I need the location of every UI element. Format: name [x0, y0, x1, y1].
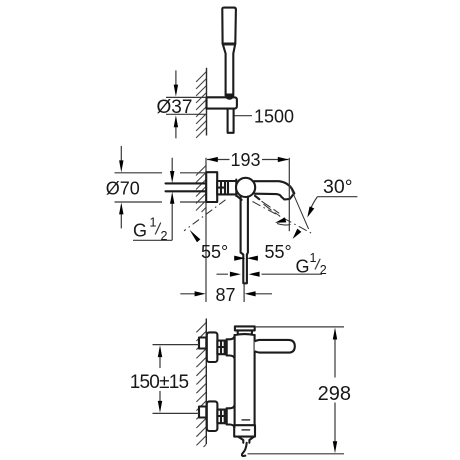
ball lower-left tick — [237, 196, 241, 200]
upper union nut — [217, 341, 224, 355]
hand shower head — [222, 8, 236, 44]
G 1/2 right text — [296, 251, 327, 277]
arrow pair at rod y258 — [234, 256, 245, 261]
hand shower handle — [223, 44, 236, 96]
dimension 193 line+arrows — [207, 159, 289, 161]
lower spacer — [225, 410, 227, 424]
svg-text:1: 1 — [310, 251, 317, 265]
G 1/2 right leader arrows at rod y274 — [217, 273, 323, 275]
supply pipe lines through wall — [166, 183, 207, 191]
dimension Ø70 extension lines — [115, 173, 207, 202]
svg-text:2: 2 — [161, 229, 168, 243]
svg-text:30°: 30° — [323, 176, 353, 198]
phantom lever swing line right 55 — [253, 202, 313, 234]
rod extension line — [243, 284, 245, 303]
dimension 87 — [180, 293, 272, 295]
upper supply stub in wall — [199, 338, 206, 349]
outlet curl — [242, 443, 247, 456]
body internal line above collar — [242, 419, 251, 421]
svg-text:G: G — [133, 221, 147, 241]
hand shower head/handle joint line — [223, 44, 234, 46]
30 degree leader — [311, 197, 358, 209]
spacer ring — [225, 181, 228, 194]
wall hatch (bottom drawing) — [196, 323, 206, 448]
dimension Ø37 stem+arrow bottom — [175, 124, 177, 138]
arc arrow mid (swing direction) — [277, 224, 291, 226]
arrowhead left phantom — [188, 228, 201, 242]
ball joint — [236, 178, 255, 197]
dimension Ø37 stem+arrow top — [175, 70, 177, 88]
wall hatch (top drawing) — [196, 72, 206, 138]
phantom lever swing line left 55 — [184, 200, 226, 231]
bottom collar — [234, 425, 255, 436]
dimension Ø37 extension line top — [166, 96, 207, 98]
dimension 193 right extension line — [288, 158, 290, 231]
wall surface line (bottom drawing) — [205, 319, 207, 445]
faucet body (to ball) — [228, 180, 236, 197]
escutcheon Ø70 (side view) — [206, 172, 217, 202]
svg-text:150±15: 150±15 — [130, 372, 189, 393]
shower hose — [228, 109, 234, 133]
lower escutcheon — [207, 401, 218, 431]
svg-text:193: 193 — [230, 150, 260, 170]
svg-text:2: 2 — [320, 263, 327, 277]
dimension 150+-15 extension lines — [153, 345, 200, 414]
svg-text:55°: 55° — [265, 242, 292, 262]
svg-text:Ø37: Ø37 — [157, 97, 193, 118]
wall surface / extension line x206 — [205, 158, 207, 302]
collar internal line — [242, 429, 251, 431]
connection nut — [217, 181, 225, 194]
G 1/2 left text — [133, 216, 168, 244]
dimension Ø70 stem+arrow top — [120, 146, 122, 163]
hand shower inlet crescent (dark) — [225, 94, 234, 100]
dimension 298 extension lines — [248, 327, 345, 454]
dimension 150+-15 stem+arrows — [159, 355, 161, 403]
wall surface line (top drawing) — [206, 68, 208, 136]
dimension Ø37 extension line bottom — [166, 113, 207, 115]
shower holder bracket bar — [207, 97, 237, 108]
spout — [254, 181, 294, 199]
upper inlet horn — [227, 337, 235, 359]
svg-text:1500: 1500 — [254, 107, 294, 127]
faucet body cylinder — [235, 335, 255, 425]
wall hatch (middle drawing) — [196, 166, 206, 213]
G 1/2 left leader vertical + arrows — [133, 158, 172, 241]
leader 1500 — [235, 115, 253, 117]
svg-text:G: G — [296, 256, 310, 276]
svg-text:87: 87 — [215, 285, 235, 305]
handle lever (front) — [255, 340, 295, 353]
upper escutcheon — [207, 332, 218, 362]
svg-text:1: 1 — [150, 216, 157, 230]
svg-text:55°: 55° — [201, 242, 228, 262]
dimension 298 stem+arrows — [334, 337, 336, 443]
upper spacer — [225, 341, 227, 355]
body neck under cap — [235, 330, 255, 335]
lower inlet horn — [227, 406, 235, 428]
lower union nut — [217, 410, 224, 424]
30 degree spout angle line — [290, 186, 309, 229]
dimension Ø70 stem+arrow bottom — [120, 212, 122, 228]
arrowhead lower right (swing direction) — [291, 229, 302, 241]
lower supply stub in wall — [199, 407, 206, 418]
svg-text:298: 298 — [318, 383, 351, 405]
handle rod below ball (closed position) — [241, 197, 248, 284]
phantom lever tilted (double dash) from ball — [255, 196, 259, 199]
svg-text:Ø70: Ø70 — [106, 179, 140, 199]
outlet taper — [238, 437, 254, 443]
body top cap — [235, 326, 255, 330]
